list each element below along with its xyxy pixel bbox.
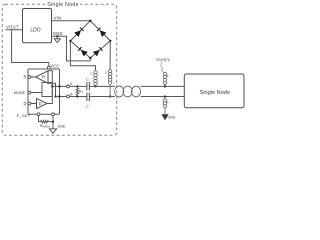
svg-text:Single Node: Single Node	[47, 2, 79, 8]
svg-text:MODE: MODE	[14, 91, 26, 95]
svg-text:L: L	[91, 72, 93, 76]
svg-text:D: D	[39, 101, 42, 106]
svg-text:VOUT: VOUT	[6, 24, 19, 29]
svg-text:L: L	[167, 74, 169, 78]
svg-text:L: L	[167, 100, 169, 104]
svg-text:GND: GND	[168, 115, 176, 119]
svg-text:Single Node: Single Node	[200, 90, 230, 96]
svg-text:T: T	[81, 90, 83, 94]
svg-text:F(ADJ): F(ADJ)	[42, 126, 50, 129]
svg-text:R: R	[23, 75, 26, 80]
svg-text:Supply: Supply	[156, 57, 171, 62]
svg-text:L: L	[105, 71, 107, 75]
svg-text:R: R	[42, 75, 45, 80]
svg-text:GND: GND	[53, 31, 63, 36]
svg-text:D: D	[23, 101, 26, 106]
svg-text:VIN: VIN	[54, 16, 62, 21]
svg-text:VCC: VCC	[50, 64, 59, 69]
svg-text:GND: GND	[58, 124, 66, 128]
svg-text:F_SET: F_SET	[17, 113, 31, 118]
svg-text:LDO: LDO	[30, 27, 40, 33]
